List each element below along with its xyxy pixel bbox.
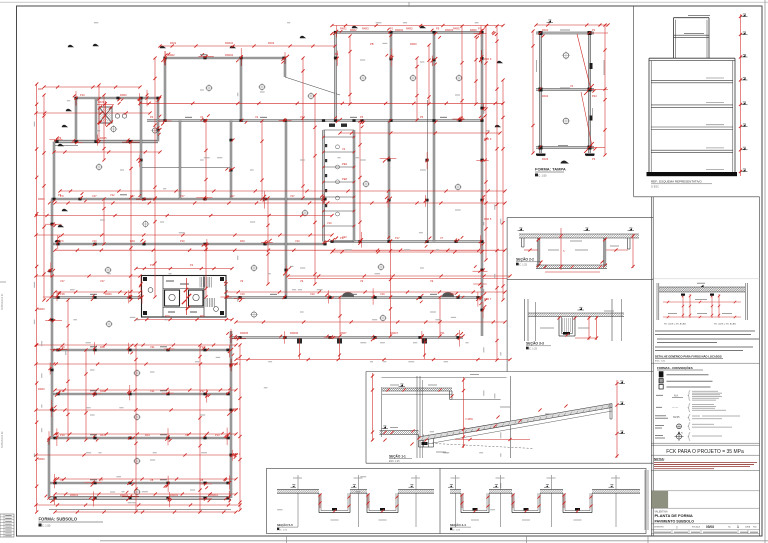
sec3 wall lines left <box>525 299 536 341</box>
svg-text:V8: V8 <box>60 478 64 482</box>
svg-text:PA8: PA8 <box>100 345 105 349</box>
furos title <box>655 353 723 362</box>
red dim y292 left <box>53 290 141 293</box>
svg-text:V9: V9 <box>430 279 434 283</box>
svg-text:S/ ESC: S/ ESC <box>651 186 659 189</box>
svg-text:PAR0: PAR0 <box>120 93 127 97</box>
svg-text:No.: No. <box>728 527 732 529</box>
wall x285 stub <box>284 58 286 77</box>
red dim left inner <box>42 93 45 301</box>
svg-text:V10: V10 <box>380 292 385 296</box>
svg-text:SEÇÃO 5-5: SEÇÃO 5-5 <box>277 522 293 527</box>
svg-text:PAR 1: PAR 1 <box>233 407 241 411</box>
tampa title <box>535 167 566 178</box>
red dim y276 right <box>286 274 511 277</box>
red dim x104b <box>102 197 105 245</box>
red dim y203 <box>53 201 506 204</box>
wall x434 <box>433 32 435 241</box>
tampa grey texts <box>537 30 605 146</box>
svg-text:P4: P4 <box>150 115 154 119</box>
svg-text:PA5: PA5 <box>38 87 43 91</box>
stair hatch lower <box>206 298 215 307</box>
fold tick top <box>408 2 410 7</box>
red dim y345 <box>34 343 237 346</box>
svg-text:PAR2: PAR2 <box>350 28 357 32</box>
red dim y152 <box>52 150 161 153</box>
wall y141 left <box>54 140 158 143</box>
tampa flag <box>548 20 551 22</box>
svg-text:P6: P6 <box>360 115 364 119</box>
red dim x206 <box>204 119 207 200</box>
red dim x86 <box>84 348 87 441</box>
svg-text:PAR01: PAR01 <box>70 493 79 497</box>
wall band y438 <box>49 437 231 439</box>
svg-text:P17: P17 <box>200 345 205 349</box>
ramp flag 1 <box>620 381 623 383</box>
svg-text:PAR02: PAR02 <box>395 28 404 32</box>
svg-text:PAR0: PAR0 <box>410 42 417 46</box>
svg-text:P.9: P.9 <box>478 27 482 31</box>
svg-text:V10: V10 <box>327 221 332 225</box>
sec2 flag right <box>629 228 632 230</box>
svg-text:V10: V10 <box>310 292 315 296</box>
svg-text:P6: P6 <box>58 136 62 140</box>
svg-text:V2: V2 <box>255 115 259 119</box>
red dim x99 <box>97 83 100 143</box>
sec2 red bottom marks <box>543 265 601 272</box>
red dim y87 <box>42 85 141 88</box>
sec2 left stub <box>522 238 525 247</box>
svg-text:PAR06: PAR06 <box>290 331 299 335</box>
fold mark bottom-1 <box>286 536 288 543</box>
sec3 title <box>526 341 551 351</box>
sec2 red dim right <box>631 234 634 268</box>
elevator shaft box <box>99 107 112 123</box>
wall y297 right <box>226 297 481 299</box>
wall x165 <box>164 58 166 121</box>
red dim x429 <box>427 43 430 105</box>
svg-text:PAR5: PAR5 <box>406 27 413 31</box>
svg-text:V17: V17 <box>100 279 105 283</box>
red dim x136 band <box>134 343 137 513</box>
shaft red cluster <box>97 100 114 127</box>
red dim x262 <box>260 119 263 200</box>
elevation floor label y170 <box>706 168 724 170</box>
red dim x155 <box>153 56 156 199</box>
tampa footing right <box>585 154 595 156</box>
svg-text:P.9: P.9 <box>60 194 64 198</box>
fold mark left <box>0 281 6 283</box>
svg-text:PAR 7: PAR 7 <box>484 297 492 301</box>
furos side walls <box>657 283 748 320</box>
tampa red diag 1 <box>577 34 591 88</box>
svg-text:NV.05: NV.05 <box>673 416 680 419</box>
wing footing 3 <box>422 338 427 359</box>
wall bottom y498 <box>49 497 231 500</box>
svg-text:P10: P10 <box>60 389 65 393</box>
wall x96 partition <box>95 98 97 142</box>
sec2 grey texts <box>548 241 619 250</box>
legend item3 symbol <box>659 384 663 389</box>
ramp dashed line <box>424 443 534 449</box>
svg-text:1: 1 <box>737 525 739 529</box>
sec2 flag left <box>519 228 522 230</box>
svg-text:PA03: PA03 <box>542 157 549 161</box>
red dim x486 <box>484 24 487 261</box>
svg-text:V8: V8 <box>150 478 154 482</box>
red dim y322 <box>234 320 506 323</box>
red line y278 <box>288 277 507 279</box>
notes panel border <box>651 197 759 536</box>
wing footing 1 <box>297 338 302 359</box>
svg-text:PE8: PE8 <box>342 177 347 181</box>
red dim y359 <box>234 358 511 361</box>
legend item2 symbol <box>659 379 663 383</box>
red dim x131 <box>129 140 132 301</box>
diagonal thin wall <box>285 77 340 95</box>
svg-text:V9: V9 <box>240 279 244 283</box>
ramp flag 2 <box>620 402 623 404</box>
red dim x303 <box>301 56 304 199</box>
red dim x417 <box>415 56 418 121</box>
svg-text:PA9: PA9 <box>130 239 135 243</box>
svg-text:PAR 5: PAR 5 <box>484 217 492 221</box>
sec2 flag mid <box>585 228 588 230</box>
svg-text:PA4: PA4 <box>145 433 150 437</box>
ramp lower slab flag <box>383 426 386 428</box>
svg-text:PAR02: PAR02 <box>225 53 234 57</box>
sec3 red marks <box>557 316 576 336</box>
svg-text:V17: V17 <box>230 194 235 198</box>
room circle symbols <box>95 74 463 496</box>
red dim y276 left <box>34 274 141 277</box>
plan title FORMA SUBSOLO <box>39 517 104 528</box>
svg-text:i=18%: i=18% <box>466 417 474 421</box>
elevation foundation bar <box>647 172 738 176</box>
svg-text:B0: B0 <box>335 52 339 56</box>
wall x180 mid <box>179 121 181 200</box>
svg-text:P10: P10 <box>165 314 170 318</box>
svg-text:PB: PB <box>370 42 374 46</box>
svg-text:REF.: ESQUEMA REPRESENTATIVO: REF.: ESQUEMA REPRESENTATIVO <box>651 180 702 184</box>
title bottom row <box>654 530 758 534</box>
title fields bottom <box>651 529 759 531</box>
tampa bottom beam <box>536 147 594 149</box>
red dim y410 <box>34 408 237 411</box>
sec3 flag <box>579 308 582 310</box>
ramp ref line upper <box>382 376 507 378</box>
red dim y479 <box>53 477 237 480</box>
legend divider <box>651 362 759 364</box>
notas bottom line <box>651 469 759 471</box>
svg-text:V7: V7 <box>100 478 104 482</box>
red wall labels <box>38 27 492 498</box>
misc dark glyphs <box>55 26 503 242</box>
red dim x462 <box>460 24 463 121</box>
red dim x503 <box>501 78 504 301</box>
red dim y319 <box>134 318 233 321</box>
tampa red dim right <box>603 23 606 156</box>
wall garage y244 <box>51 243 324 245</box>
wall x286 mid <box>285 121 287 298</box>
sec2 pit corner reds <box>537 238 607 268</box>
elevator circles <box>115 114 126 118</box>
legend item5 <box>656 404 726 413</box>
legend item6 <box>655 415 740 421</box>
legend item1 text <box>667 374 709 376</box>
sec3 wall lines right <box>612 299 622 341</box>
ramp top slab stub <box>450 391 453 399</box>
svg-text:V2: V2 <box>342 147 346 151</box>
svg-text:V10: V10 <box>295 239 300 243</box>
tampa red diag 2 <box>581 92 592 146</box>
ramp grey texts <box>390 375 554 453</box>
svg-text:P18: P18 <box>60 292 65 296</box>
sec3 pit <box>559 317 575 337</box>
svg-text:P9: P9 <box>436 27 440 31</box>
svg-text:V10: V10 <box>240 292 245 296</box>
svg-text:P19: P19 <box>60 345 65 349</box>
tampa circle 1 <box>563 53 569 59</box>
wall top-left room top <box>76 97 158 99</box>
red dim y455 <box>34 453 237 456</box>
ramp red cluster mid <box>455 419 530 441</box>
wall band y483 <box>49 482 231 484</box>
wall x391 upper <box>390 32 392 120</box>
svg-text:P10: P10 <box>180 239 185 243</box>
elevation panel border <box>634 6 760 197</box>
strip right verticals <box>645 470 648 530</box>
wall top of upper-right block <box>334 31 482 33</box>
svg-text:V3: V3 <box>460 115 464 119</box>
svg-text:ESC: 1:25: ESC: 1:25 <box>389 461 400 463</box>
svg-text:V21: V21 <box>150 345 155 349</box>
svg-text:P01: P01 <box>440 331 445 335</box>
wall x241 <box>240 58 242 121</box>
tampa mid beam <box>536 89 594 91</box>
svg-text:▒: ▒ <box>676 526 678 529</box>
svg-text:V7: V7 <box>440 236 444 240</box>
wall x231 lower <box>230 331 232 498</box>
furos red lines <box>663 301 741 318</box>
ramp pit <box>419 435 434 448</box>
elevation main box <box>649 58 735 172</box>
fold mark bottom-3 <box>526 536 528 543</box>
furos paragraph <box>655 331 759 351</box>
svg-text:PAR 1: PAR 1 <box>233 362 241 366</box>
ramp box thin left <box>381 387 383 437</box>
elevation floor slab 3 <box>651 127 733 130</box>
elevation floor slab 1 <box>651 80 733 83</box>
svg-text:V2: V2 <box>200 115 204 119</box>
title fields sep <box>651 523 759 525</box>
svg-text:SEÇÃO 1-1: SEÇÃO 1-1 <box>389 454 406 459</box>
svg-text:PAR 9: PAR 9 <box>484 57 492 61</box>
svg-text:PAR03: PAR03 <box>170 493 179 497</box>
plan wall columns <box>48 31 483 499</box>
svg-text:P3: P3 <box>592 157 596 161</box>
ramp long verticals <box>417 376 510 458</box>
svg-text:PA02: PA02 <box>542 94 549 98</box>
fold mark bottom-2 <box>647 536 649 543</box>
tampa right wall <box>589 31 591 153</box>
red junction ticks <box>43 25 498 507</box>
svg-text:NV. LAJE = NV. ACAB.: NV. LAJE = NV. ACAB. <box>714 323 737 326</box>
red dim x315 <box>313 93 316 285</box>
svg-text:V21: V21 <box>150 389 155 393</box>
tampa red marks <box>538 24 608 153</box>
svg-text:PA8: PA8 <box>100 389 105 393</box>
svg-text:P17: P17 <box>395 236 400 240</box>
svg-text:PAR0: PAR0 <box>38 457 45 461</box>
svg-text:PA0: PA0 <box>240 239 245 243</box>
thin ledge line <box>54 145 78 147</box>
legend title <box>657 365 703 370</box>
svg-text:PAR9: PAR9 <box>38 197 45 201</box>
svg-text:PAR01: PAR01 <box>120 493 129 497</box>
sec2 red dim mid <box>559 228 565 270</box>
furos bottom labels <box>664 323 737 326</box>
legend item2 text <box>667 380 713 382</box>
tampa red dim left <box>531 29 534 154</box>
wall y297 left <box>51 297 142 299</box>
svg-text:DATA: DATA <box>745 526 751 529</box>
ramp top slab flag <box>400 384 403 386</box>
beam line y167 <box>141 167 231 169</box>
svg-text:PAR05: PAR05 <box>240 331 249 335</box>
sections panel border <box>507 197 653 536</box>
elevation roof label <box>688 15 710 17</box>
wall left edge upper <box>53 142 55 200</box>
wall left edge mid <box>51 199 53 438</box>
legend item1 symbol <box>659 372 663 378</box>
title bottom line <box>651 533 759 535</box>
revision table <box>0 514 14 537</box>
svg-text:V10: V10 <box>92 239 97 243</box>
ramp ref line 2 <box>452 398 501 400</box>
tampa left wall <box>540 31 542 153</box>
ramp panel border <box>366 372 653 464</box>
wing curb hump 2 <box>442 292 454 297</box>
svg-text:P6: P6 <box>420 115 424 119</box>
wall right edge x482 <box>481 32 483 336</box>
svg-text:V9: V9 <box>300 279 304 283</box>
svg-text:PE9: PE9 <box>342 162 347 166</box>
sec2 pit walls <box>538 238 606 265</box>
red dim y390 <box>53 388 237 391</box>
red dim x68 <box>66 298 69 441</box>
red dim x268 <box>266 196 269 285</box>
thin line x427 <box>427 100 429 242</box>
svg-text:PAR3: PAR3 <box>362 27 369 31</box>
tampa top beam <box>536 32 594 34</box>
svg-text:FORMA: TAMPA: FORMA: TAMPA <box>535 167 566 172</box>
red dim x206b <box>204 242 207 298</box>
svg-text:PAR0: PAR0 <box>105 292 112 296</box>
red dim y215 <box>34 214 333 217</box>
red dim y505 <box>34 503 241 506</box>
ramp red left <box>371 373 374 442</box>
svg-text:V17: V17 <box>290 194 295 198</box>
svg-text:P19: P19 <box>60 433 65 437</box>
svg-text:V3: V3 <box>300 115 304 119</box>
section 5-5 detail <box>273 475 437 532</box>
wall band y394 <box>51 393 231 395</box>
wing curb hump 1 <box>342 292 354 297</box>
svg-text:FORMA: SUBSOLO: FORMA: SUBSOLO <box>39 517 78 522</box>
red dim x350 <box>348 34 351 105</box>
wall x141 <box>140 98 142 199</box>
svg-text:PAR2: PAR2 <box>340 27 347 31</box>
red dim left margin <box>35 82 38 513</box>
red dim y103 <box>138 102 504 105</box>
furos flag <box>701 285 704 287</box>
red dim x360 <box>358 119 361 242</box>
tampa foot glyph <box>561 161 570 164</box>
svg-text:SOBRADEZ 02: SOBRADEZ 02 <box>1 431 4 448</box>
grey dim texts <box>34 23 501 510</box>
svg-text:V09: V09 <box>450 292 455 296</box>
legend item4 <box>656 391 722 401</box>
red dim x155b <box>153 197 156 298</box>
svg-text:PAR5: PAR5 <box>100 136 107 140</box>
svg-text:PAR2: PAR2 <box>168 53 175 57</box>
red dim y292 right <box>224 290 506 293</box>
svg-text:P2d: P2d <box>592 94 597 98</box>
red dim y250 <box>53 249 506 252</box>
svg-text:PLANTA DE FORMA: PLANTA DE FORMA <box>655 513 693 518</box>
furos red pipes <box>681 294 720 319</box>
elevation floor slab 4 <box>651 150 733 153</box>
red dim y434 <box>53 432 237 435</box>
svg-text:SOBRADEZ 01: SOBRADEZ 01 <box>1 293 4 310</box>
sec3 grey texts <box>540 311 614 328</box>
svg-text:FCK PARA O PROJETO = 35 MPa: FCK PARA O PROJETO = 35 MPa <box>666 449 744 455</box>
svg-text:V17: V17 <box>60 279 65 283</box>
svg-text:PAR0: PAR0 <box>38 387 45 391</box>
elevation title <box>651 180 712 189</box>
svg-text:P17: P17 <box>340 236 345 240</box>
svg-text:SEÇÃO 3-3: SEÇÃO 3-3 <box>526 341 544 346</box>
svg-text:P13: P13 <box>215 433 220 437</box>
tampa footing left <box>536 154 546 156</box>
sec3 red dims <box>575 316 598 340</box>
central bathroom block <box>142 276 227 318</box>
svg-text:PA02: PA02 <box>170 41 177 45</box>
svg-text:PAR9: PAR9 <box>470 28 477 32</box>
elevation floor label y78 <box>706 77 724 79</box>
svg-text:P1d: P1d <box>80 93 85 97</box>
ramp red mid <box>462 377 474 448</box>
svg-text:PA01: PA01 <box>542 28 549 32</box>
elevation mid label <box>684 33 704 35</box>
svg-text:PAR 9: PAR 9 <box>484 137 492 141</box>
paper edge right <box>764 0 766 543</box>
svg-text:NOTAS:: NOTAS: <box>654 457 665 461</box>
ramp band <box>419 404 613 444</box>
elevation floor label y103 <box>706 102 724 104</box>
red dim y364 <box>34 362 237 365</box>
red dim x200 band <box>198 343 201 513</box>
title block sep <box>651 507 759 509</box>
red dim top of upper block <box>330 24 504 27</box>
legend item7 <box>655 423 732 431</box>
red dim x390b <box>389 295 392 337</box>
red dim y113 <box>34 111 151 114</box>
svg-text:PAR7: PAR7 <box>340 331 347 335</box>
red dim y191 <box>58 189 506 192</box>
svg-text:PAVIMENTO SUBSOLO: PAVIMENTO SUBSOLO <box>655 519 695 523</box>
